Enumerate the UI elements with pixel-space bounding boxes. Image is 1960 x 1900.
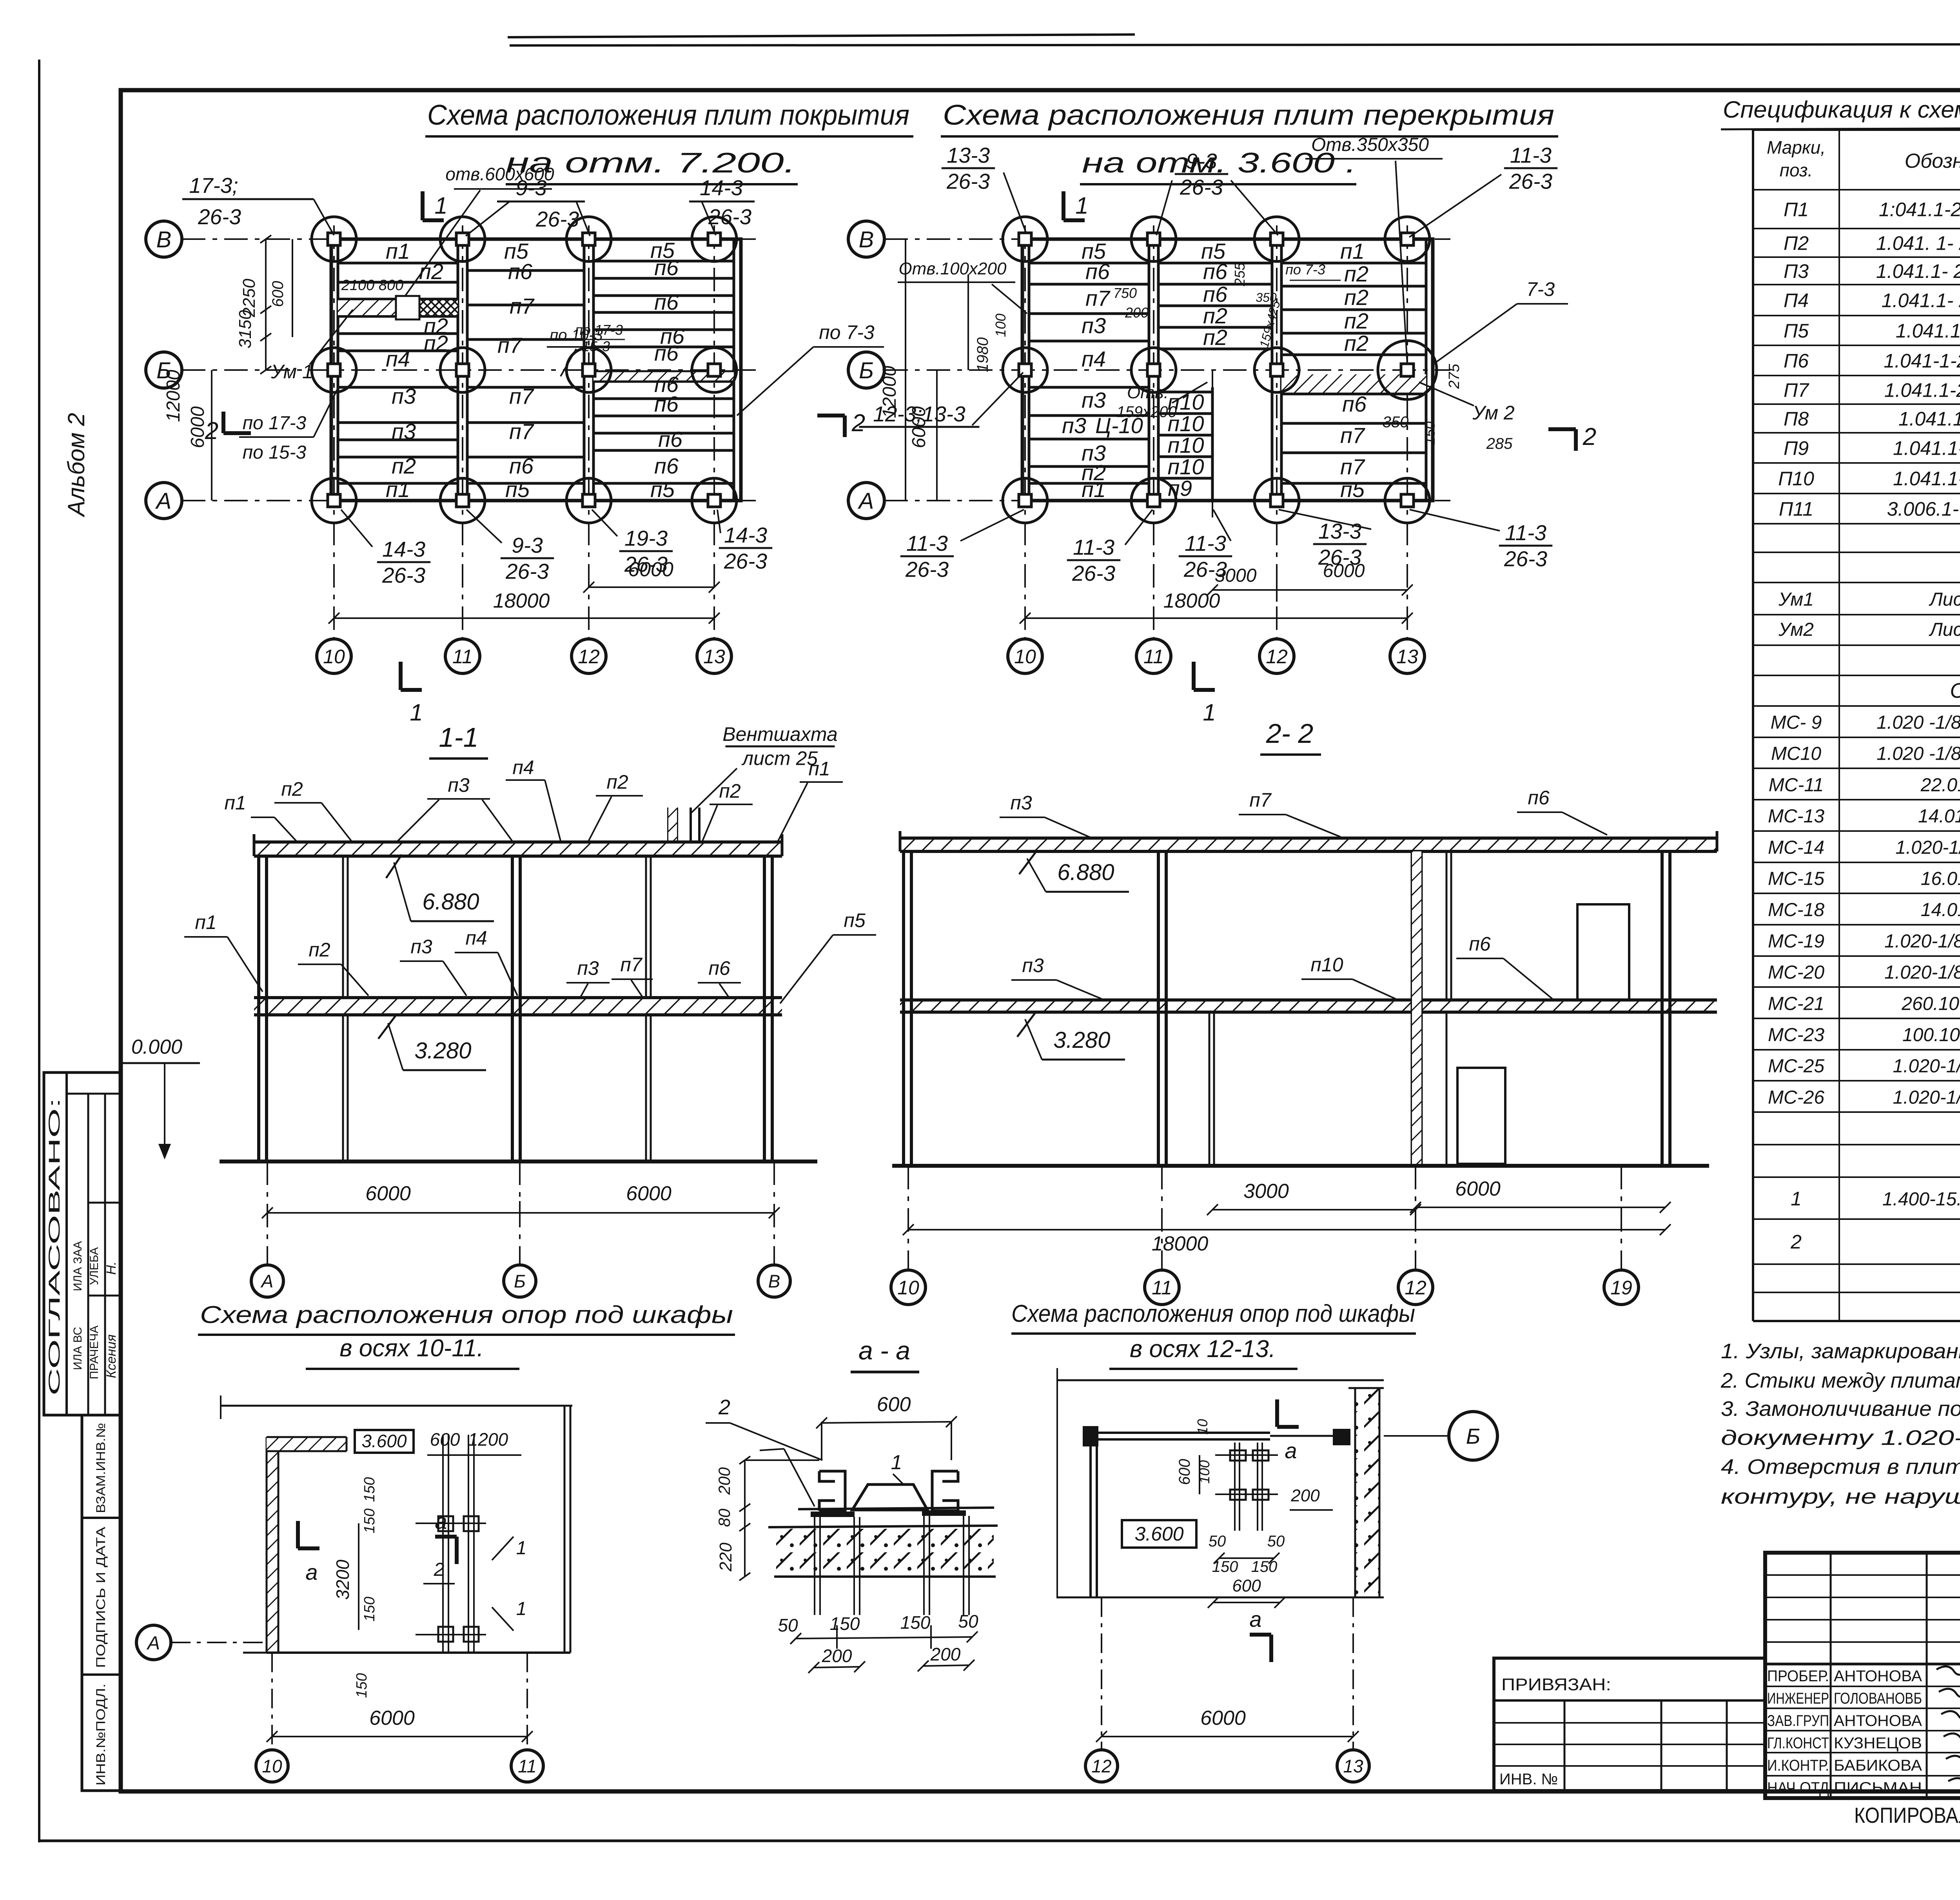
svg-text:200: 200 — [822, 1646, 852, 1666]
svg-text:1.041.1-2.1.300-24: 1.041.1-2.1.300-24 — [1884, 379, 1960, 401]
svg-text:п7: п7 — [1340, 454, 1365, 479]
svg-text:10: 10 — [262, 1756, 282, 1777]
svg-text:26-3: 26-3 — [198, 205, 241, 229]
svg-text:1.041.1-2.5.4000: 1.041.1-2.5.4000 — [1893, 437, 1960, 459]
svg-text:п2: п2 — [1203, 325, 1227, 350]
svg-text:п2: п2 — [1344, 285, 1368, 310]
svg-text:9-3: 9-3 — [515, 176, 547, 200]
svg-text:600: 600 — [877, 1393, 911, 1416]
svg-text:в осях 12-13.: в осях 12-13. — [1130, 1336, 1276, 1363]
svg-text:п7: п7 — [509, 384, 534, 408]
svg-text:12: 12 — [578, 646, 600, 668]
svg-text:600: 600 — [269, 281, 287, 307]
svg-text:1.020-1/83 7-1 70: 1.020-1/83 7-1 70 — [1893, 1056, 1960, 1077]
svg-text:13: 13 — [1343, 1756, 1363, 1777]
svg-text:п6: п6 — [658, 427, 683, 452]
svg-text:1.020 -1/83 7-1 30-02: 1.020 -1/83 7-1 30-02 — [1877, 744, 1960, 764]
svg-text:в осях 10-11.: в осях 10-11. — [339, 1335, 484, 1362]
svg-text:МС-18: МС-18 — [1768, 900, 1824, 920]
svg-text:14-3: 14-3 — [382, 537, 425, 561]
svg-text:600: 600 — [430, 1429, 460, 1450]
svg-text:п7: п7 — [620, 954, 643, 976]
svg-text:3.600: 3.600 — [361, 1431, 407, 1451]
svg-text:ГЛ.КОНСТ: ГЛ.КОНСТ — [1767, 1735, 1829, 1752]
svg-text:9-3: 9-3 — [512, 533, 543, 557]
svg-text:ИНЖЕНЕР: ИНЖЕНЕР — [1767, 1690, 1829, 1707]
svg-text:260.10.070.260: 260.10.070.260 — [1901, 993, 1960, 1014]
svg-text:а: а — [435, 1509, 447, 1533]
svg-text:п10: п10 — [1167, 454, 1204, 479]
svg-text:150: 150 — [1422, 421, 1438, 445]
svg-text:п5: п5 — [650, 477, 675, 502]
svg-text:Ум1: Ум1 — [1778, 589, 1814, 610]
svg-text:14-3: 14-3 — [700, 176, 743, 200]
svg-text:п6: п6 — [654, 454, 679, 478]
svg-text:Марки,: Марки, — [1767, 137, 1826, 158]
svg-text:п3: п3 — [410, 936, 432, 958]
svg-text:2100 800: 2100 800 — [341, 277, 404, 294]
svg-text:п2: п2 — [1344, 331, 1368, 356]
svg-text:11-3: 11-3 — [906, 531, 948, 555]
svg-text:200: 200 — [1290, 1486, 1320, 1505]
svg-text:п5: п5 — [844, 909, 866, 931]
svg-text:а: а — [305, 1560, 318, 1584]
svg-text:3.006.1- 2.87.2-10: 3.006.1- 2.87.2-10 — [1887, 498, 1960, 520]
svg-text:МС-14: МС-14 — [1768, 837, 1824, 858]
svg-text:п3: п3 — [1082, 388, 1106, 412]
svg-text:2: 2 — [205, 417, 218, 445]
svg-text:3000: 3000 — [1243, 1180, 1289, 1203]
svg-text:п1: п1 — [224, 792, 246, 814]
svg-text:ПИСЬМАН: ПИСЬМАН — [1834, 1779, 1922, 1797]
svg-text:750: 750 — [1113, 285, 1137, 301]
svg-text:17-3;: 17-3; — [189, 173, 238, 198]
svg-text:п2: п2 — [606, 771, 628, 793]
svg-text:МС-13: МС-13 — [1768, 806, 1824, 827]
svg-text:3.280: 3.280 — [414, 1038, 471, 1063]
svg-text:Б: Б — [514, 1271, 526, 1292]
svg-text:50: 50 — [958, 1611, 978, 1631]
svg-text:Ксения: Ксения — [104, 1334, 119, 1378]
svg-text:АНТОНОВА: АНТОНОВА — [1834, 1668, 1922, 1685]
svg-text:12000: 12000 — [163, 370, 184, 422]
svg-text:В: В — [768, 1271, 780, 1292]
svg-text:МС-11: МС-11 — [1769, 775, 1824, 795]
svg-text:по 7-3: по 7-3 — [819, 321, 875, 343]
svg-text:150: 150 — [830, 1613, 860, 1634]
svg-text:Лист 25: Лист 25 — [1929, 619, 1960, 640]
svg-text:И.КОНТР.: И.КОНТР. — [1767, 1757, 1829, 1774]
svg-text:11-3: 11-3 — [1185, 531, 1226, 555]
svg-text:п4: п4 — [1082, 347, 1106, 371]
svg-text:1.020-1/83 7-150: 1.020-1/83 7-150 — [1895, 837, 1960, 858]
svg-text:МС-20: МС-20 — [1768, 962, 1824, 983]
svg-text:п4: п4 — [386, 347, 410, 371]
svg-text:26-3: 26-3 — [905, 557, 949, 581]
svg-text:13: 13 — [703, 646, 725, 668]
svg-text:6000: 6000 — [1200, 1707, 1246, 1729]
svg-text:14.011. 600: 14.011. 600 — [1918, 806, 1960, 827]
svg-text:1. Узлы, замаркированные на ли: 1. Узлы, замаркированные на листе, смотр… — [1721, 1339, 1960, 1363]
svg-text:АНТОНОВА: АНТОНОВА — [1834, 1712, 1922, 1729]
svg-text:1: 1 — [410, 699, 423, 726]
svg-text:3. Замоноличивание полок ригел: 3. Замоноличивание полок ригелей в зоне … — [1721, 1397, 1960, 1421]
svg-text:МС-26: МС-26 — [1768, 1087, 1824, 1108]
svg-text:СОГЛАСОВАНО:: СОГЛАСОВАНО: — [46, 1098, 63, 1396]
svg-text:а: а — [1285, 1438, 1297, 1463]
svg-text:6000: 6000 — [369, 1707, 415, 1729]
svg-text:600: 600 — [1176, 1459, 1193, 1485]
svg-text:13: 13 — [1396, 646, 1418, 668]
svg-text:Ум2: Ум2 — [1778, 619, 1814, 640]
svg-text:Б: Б — [1466, 1424, 1480, 1448]
svg-text:П3: П3 — [1784, 260, 1809, 282]
svg-text:Лист 25: Лист 25 — [1929, 589, 1960, 610]
svg-text:600: 600 — [1232, 1576, 1261, 1595]
svg-text:ПРОБЕР.: ПРОБЕР. — [1767, 1668, 1829, 1685]
svg-text:2: 2 — [434, 1559, 445, 1580]
svg-text:п6: п6 — [654, 341, 679, 365]
svg-text:п2: п2 — [1344, 309, 1368, 333]
svg-text:п7: п7 — [510, 294, 535, 318]
svg-text:п1: п1 — [1340, 239, 1365, 263]
svg-text:14.011.350: 14.011.350 — [1921, 900, 1960, 920]
svg-text:п7: п7 — [509, 419, 534, 444]
svg-text:п2: п2 — [392, 454, 416, 478]
svg-text:Обозначение: Обозначение — [1905, 150, 1960, 172]
svg-text:Вентшахта: Вентшахта — [722, 723, 838, 745]
svg-text:по 17-3: по 17-3 — [575, 322, 623, 338]
svg-text:п3: п3 — [1082, 313, 1106, 338]
svg-text:КУЗНЕЦОВ: КУЗНЕЦОВ — [1834, 1735, 1922, 1752]
svg-text:МС-21: МС-21 — [1768, 993, 1824, 1014]
svg-text:26-3: 26-3 — [1183, 557, 1227, 581]
svg-text:п7: п7 — [1085, 286, 1111, 310]
svg-text:26-3: 26-3 — [708, 205, 751, 229]
svg-text:Отв.350х350: Отв.350х350 — [1311, 134, 1429, 155]
svg-text:Н.: Н. — [104, 1261, 119, 1275]
svg-text:12: 12 — [1091, 1756, 1111, 1777]
svg-text:Ум 1: Ум 1 — [270, 361, 313, 383]
svg-text:1:041.1-2.1. 200 -01: 1:041.1-2.1. 200 -01 — [1879, 199, 1960, 221]
svg-text:6000: 6000 — [1455, 1178, 1501, 1200]
svg-text:п3: п3 — [577, 957, 599, 979]
svg-text:МС-15: МС-15 — [1768, 869, 1824, 889]
svg-text:МС-25: МС-25 — [1768, 1056, 1824, 1077]
svg-text:1: 1 — [891, 1451, 902, 1474]
svg-text:1.020-1/837-150-03: 1.020-1/837-150-03 — [1884, 962, 1960, 983]
svg-text:200: 200 — [930, 1644, 961, 1664]
svg-text:КОПИРОВАЛ: ЛОГИНОВА: КОПИРОВАЛ: ЛОГИНОВА — [1854, 1803, 1960, 1827]
svg-text:200: 200 — [1125, 305, 1149, 321]
svg-text:50: 50 — [778, 1615, 798, 1635]
svg-text:п6: п6 — [654, 392, 679, 416]
svg-text:3.280: 3.280 — [1053, 1027, 1110, 1053]
svg-text:Схема расположения опор под шк: Схема расположения опор под шкафы — [1011, 1300, 1415, 1327]
svg-text:лист 25: лист 25 — [741, 748, 818, 769]
svg-text:1: 1 — [434, 192, 447, 219]
svg-text:п10: п10 — [1167, 433, 1204, 457]
svg-text:п3: п3 — [448, 774, 470, 796]
svg-text:А: А — [260, 1271, 274, 1292]
svg-text:26-3: 26-3 — [1509, 169, 1552, 193]
svg-text:220: 220 — [716, 1543, 735, 1572]
svg-text:11: 11 — [1143, 646, 1164, 668]
svg-text:150: 150 — [900, 1612, 931, 1633]
svg-text:по 7-3: по 7-3 — [1285, 261, 1325, 278]
svg-text:Отв.100х200: Отв.100х200 — [899, 259, 1007, 278]
svg-text:1.041.1-2.1.400: 1.041.1-2.1.400 — [1898, 408, 1960, 430]
svg-text:п2: п2 — [1203, 303, 1227, 328]
svg-text:п6: п6 — [654, 255, 679, 280]
svg-text:ЗАВ.ГРУП: ЗАВ.ГРУП — [1767, 1712, 1829, 1729]
svg-text:ИНВ.№ПОДЛ.: ИНВ.№ПОДЛ. — [94, 1684, 108, 1786]
svg-text:МС-23: МС-23 — [1768, 1025, 1824, 1045]
svg-text:26-3: 26-3 — [535, 207, 579, 231]
svg-text:26-3: 26-3 — [1504, 546, 1547, 571]
svg-text:п2: п2 — [719, 780, 741, 802]
svg-text:18000: 18000 — [493, 590, 550, 612]
svg-text:П5: П5 — [1784, 320, 1809, 342]
svg-text:19-3: 19-3 — [624, 526, 668, 550]
svg-text:по 17-3: по 17-3 — [243, 413, 307, 434]
svg-text:1: 1 — [1203, 699, 1216, 726]
svg-text:п1: п1 — [1082, 477, 1106, 502]
svg-text:100: 100 — [993, 314, 1009, 337]
svg-text:6.880: 6.880 — [422, 889, 479, 915]
svg-text:150: 150 — [354, 1673, 370, 1698]
svg-text:Отв.: Отв. — [1127, 383, 1169, 402]
svg-text:п6: п6 — [1469, 933, 1491, 955]
svg-text:п3: п3 — [1010, 792, 1032, 814]
svg-text:ГОЛОВАНОВБ: ГОЛОВАНОВБ — [1834, 1690, 1922, 1707]
svg-text:26-3: 26-3 — [624, 552, 668, 576]
svg-text:п1: п1 — [386, 477, 410, 502]
svg-text:2: 2 — [718, 1396, 730, 1419]
svg-text:1.041.1 -2.1.200: 1.041.1 -2.1.200 — [1896, 320, 1960, 342]
svg-text:п6: п6 — [1203, 259, 1228, 284]
svg-text:11: 11 — [1152, 1277, 1172, 1299]
svg-text:п2: п2 — [281, 778, 303, 800]
svg-text:150: 150 — [1251, 1558, 1278, 1575]
svg-text:150: 150 — [361, 1477, 378, 1502]
svg-text:1.020-1/83 7-1 80: 1.020-1/83 7-1 80 — [1893, 1087, 1960, 1108]
svg-text:2- 2: 2- 2 — [1266, 718, 1314, 749]
svg-text:п6: п6 — [1203, 282, 1228, 307]
svg-text:10: 10 — [897, 1277, 919, 1299]
svg-text:80: 80 — [715, 1508, 733, 1527]
svg-text:150: 150 — [361, 1508, 378, 1533]
svg-text:1: 1 — [516, 1538, 527, 1559]
svg-text:26-3: 26-3 — [1072, 561, 1115, 585]
svg-text:п7: п7 — [1249, 789, 1272, 811]
svg-text:11-3: 11-3 — [1505, 521, 1546, 545]
svg-text:п1: п1 — [386, 239, 410, 263]
svg-text:п2: п2 — [424, 331, 448, 356]
svg-text:П6: П6 — [1784, 350, 1809, 372]
svg-text:П8: П8 — [1784, 408, 1809, 430]
svg-text:22.011.540: 22.011.540 — [1920, 775, 1960, 795]
svg-text:12: 12 — [1405, 1277, 1426, 1299]
svg-text:п10: п10 — [1310, 954, 1343, 976]
svg-text:а: а — [1249, 1607, 1261, 1631]
svg-text:16.011.300: 16.011.300 — [1921, 869, 1960, 889]
svg-text:1.400-15.81.410- 05: 1.400-15.81.410- 05 — [1882, 1189, 1960, 1210]
svg-text:п5: п5 — [505, 477, 530, 502]
svg-text:А: А — [146, 1633, 160, 1653]
svg-text:150: 150 — [361, 1597, 378, 1621]
svg-text:26-3: 26-3 — [724, 549, 767, 573]
svg-text:6.880: 6.880 — [1057, 860, 1114, 885]
svg-text:1.041. 1- 2.1.100 -02: 1.041. 1- 2.1.100 -02 — [1876, 232, 1960, 254]
svg-text:Схема расположения плит покрыт: Схема расположения плит покрытия — [427, 100, 909, 131]
svg-text:1.041-1-2.1.100-20: 1.041-1-2.1.100-20 — [1884, 350, 1960, 372]
svg-text:п1: п1 — [808, 758, 830, 780]
svg-text:1.041.1-2.5.1000: 1.041.1-2.5.1000 — [1893, 468, 1960, 490]
svg-text:3150: 3150 — [236, 310, 255, 348]
svg-text:255: 255 — [1232, 262, 1248, 287]
svg-text:12-3;13-3: 12-3;13-3 — [873, 402, 965, 426]
svg-text:285: 285 — [1486, 435, 1513, 452]
svg-text:1.041.1- 2.1.300 - 05: 1.041.1- 2.1.300 - 05 — [1876, 260, 1960, 282]
svg-text:6000: 6000 — [626, 1182, 671, 1205]
svg-text:1.041.1- 2.1.400-02: 1.041.1- 2.1.400-02 — [1882, 290, 1960, 312]
svg-text:15-3: 15-3 — [582, 338, 610, 354]
svg-text:ИНВ. №: ИНВ. № — [1499, 1771, 1558, 1788]
svg-text:200: 200 — [715, 1467, 733, 1495]
svg-text:НАЧ.ОТД: НАЧ.ОТД — [1767, 1779, 1829, 1797]
svg-text:а - а: а - а — [858, 1336, 910, 1365]
svg-text:П1: П1 — [1784, 199, 1809, 221]
svg-text:2: 2 — [851, 410, 865, 437]
svg-text:11: 11 — [452, 646, 473, 668]
svg-text:14-3: 14-3 — [724, 523, 767, 547]
svg-text:п6: п6 — [1528, 787, 1550, 809]
svg-text:П11: П11 — [1779, 498, 1813, 520]
svg-text:П2: П2 — [1784, 232, 1809, 254]
svg-text:26-3: 26-3 — [1180, 175, 1223, 199]
svg-text:26-3: 26-3 — [1318, 545, 1361, 569]
svg-text:п3: п3 — [392, 384, 416, 408]
svg-text:26-3: 26-3 — [505, 559, 549, 583]
svg-text:Соединительные элементы: Соединительные элементы — [1950, 679, 1960, 702]
svg-text:50: 50 — [1209, 1533, 1226, 1550]
svg-text:9-3: 9-3 — [1186, 149, 1217, 173]
svg-text:0.000: 0.000 — [131, 1036, 182, 1058]
svg-text:1.020-1/837-150-02: 1.020-1/837-150-02 — [1884, 931, 1960, 952]
svg-text:ИЛА ЗАА: ИЛА ЗАА — [71, 1241, 84, 1291]
svg-text:11: 11 — [518, 1756, 537, 1777]
svg-text:п4: п4 — [512, 757, 534, 779]
svg-text:МС- 9: МС- 9 — [1771, 712, 1822, 733]
svg-text:13-3: 13-3 — [947, 143, 990, 167]
svg-text:п6: п6 — [1085, 259, 1110, 284]
svg-text:п7: п7 — [497, 333, 523, 357]
svg-text:контуру, не нарушая ребер.: контуру, не нарушая ребер. — [1721, 1485, 1960, 1508]
svg-text:по 15-3: по 15-3 — [243, 442, 307, 463]
svg-text:1: 1 — [1791, 1188, 1802, 1210]
svg-text:п7: п7 — [1340, 423, 1365, 448]
svg-text:1-1: 1-1 — [439, 722, 478, 753]
svg-text:В: В — [156, 227, 172, 252]
svg-text:УЛЕБА: УЛЕБА — [88, 1247, 101, 1285]
svg-text:26-3: 26-3 — [946, 169, 990, 193]
svg-text:275: 275 — [1446, 363, 1463, 389]
svg-text:50: 50 — [1267, 1533, 1285, 1550]
svg-text:11-3: 11-3 — [1073, 535, 1114, 559]
svg-text:10: 10 — [1194, 1419, 1210, 1435]
svg-text:п6: п6 — [654, 290, 679, 314]
svg-text:2. Стыки между плитами заделат: 2. Стыки между плитами заделать бетоном … — [1720, 1369, 1960, 1392]
svg-text:А: А — [155, 488, 172, 514]
svg-text:п3: п3 — [392, 419, 416, 444]
svg-text:11-3: 11-3 — [1510, 143, 1552, 167]
svg-text:1980: 1980 — [974, 338, 991, 372]
svg-text:п2: п2 — [1344, 261, 1368, 286]
svg-text:7-3: 7-3 — [1526, 278, 1555, 300]
svg-text:1: 1 — [1075, 192, 1088, 219]
svg-text:п6: п6 — [1342, 392, 1367, 416]
svg-text:10: 10 — [1014, 646, 1036, 668]
svg-text:А: А — [858, 488, 874, 514]
svg-text:поз.: поз. — [1780, 160, 1813, 180]
svg-text:П9: П9 — [1784, 437, 1809, 459]
svg-text:18000: 18000 — [1163, 590, 1220, 612]
svg-text:В: В — [859, 227, 874, 252]
svg-text:10: 10 — [323, 646, 345, 668]
svg-text:п6: п6 — [508, 259, 533, 284]
svg-text:МС-19: МС-19 — [1768, 931, 1824, 952]
svg-text:4. Отверстия в плитах выполнит: 4. Отверстия в плитах выполнить методом … — [1721, 1455, 1960, 1479]
svg-text:ПРИВЯЗАН:: ПРИВЯЗАН: — [1501, 1675, 1611, 1694]
svg-text:Альбом 2: Альбом 2 — [63, 413, 89, 517]
svg-text:п3: п3 — [1022, 955, 1044, 976]
svg-text:2: 2 — [1583, 423, 1596, 450]
svg-text:ВЗАМ.ИНВ.№: ВЗАМ.ИНВ.№ — [94, 1423, 108, 1513]
svg-text:6000: 6000 — [365, 1182, 411, 1205]
svg-text:3.600: 3.600 — [1134, 1523, 1183, 1545]
svg-text:Схема расположения плит перекр: Схема расположения плит перекрытия — [943, 100, 1554, 131]
svg-text:Б: Б — [859, 358, 874, 383]
svg-text:18000: 18000 — [1152, 1232, 1209, 1255]
svg-text:МС10: МС10 — [1771, 744, 1821, 764]
svg-text:П4: П4 — [1784, 290, 1809, 312]
svg-text:ПРАЧЕЧА: ПРАЧЕЧА — [88, 1325, 101, 1379]
svg-text:26-3: 26-3 — [382, 563, 425, 587]
svg-text:П10: П10 — [1778, 468, 1814, 490]
svg-text:П7: П7 — [1784, 379, 1809, 401]
svg-text:п6: п6 — [509, 454, 534, 478]
svg-text:159х200: 159х200 — [1116, 403, 1176, 421]
svg-text:12: 12 — [1266, 646, 1288, 668]
svg-text:БАБИКОВА: БАБИКОВА — [1834, 1757, 1922, 1774]
svg-text:350: 350 — [1383, 414, 1409, 431]
svg-text:1.020 -1/83 7-1 30-01: 1.020 -1/83 7-1 30-01 — [1877, 712, 1960, 733]
svg-text:п6: п6 — [708, 957, 730, 979]
svg-text:п5: п5 — [1340, 477, 1365, 502]
svg-text:Спецификация к схемам располож: Спецификация к схемам расположения плит … — [1723, 96, 1960, 123]
svg-text:п3: п3 — [1062, 413, 1086, 438]
svg-text:2: 2 — [1790, 1231, 1802, 1253]
svg-text:100.10.060.110: 100.10.060.110 — [1902, 1025, 1960, 1045]
svg-text:документу 1.020-1/83 6-1 049: документу 1.020-1/83 6-1 049. — [1721, 1426, 1960, 1450]
svg-text:3200: 3200 — [332, 1559, 353, 1600]
svg-text:ИЛА ВС: ИЛА ВС — [71, 1327, 84, 1370]
svg-text:19: 19 — [1610, 1277, 1632, 1299]
svg-text:п1: п1 — [195, 911, 216, 933]
svg-text:п4: п4 — [465, 927, 487, 949]
svg-text:Схема расположения опор под шк: Схема расположения опор под шкафы — [200, 1301, 733, 1328]
